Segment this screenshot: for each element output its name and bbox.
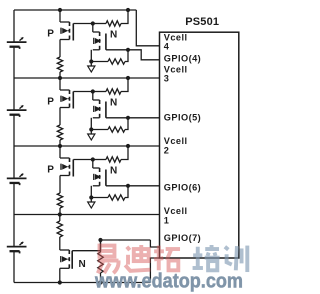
wire: rail to P-FET drain <box>59 78 61 90</box>
resistor R4C (bleed) <box>57 221 62 237</box>
transistor Q2A (P-channel MOSFET) <box>60 90 73 109</box>
node: P gate node <box>91 89 95 93</box>
wire: bleed resistor to next rail <box>59 72 61 78</box>
wire: bleed resistor to next rail <box>59 140 61 146</box>
svg-text:P: P <box>47 97 54 108</box>
node: rail junction to P-FET Q1A drain <box>58 8 62 12</box>
resistor R1C (bleed) <box>57 57 62 72</box>
wire: N gate lead to GPIO(5) <box>106 117 160 119</box>
wire: Q4 gate lead <box>72 250 100 252</box>
node: GPIO(6) junction <box>126 184 130 188</box>
node: N source node <box>89 127 93 131</box>
resistor R4B (gate-source) <box>100 240 102 252</box>
svg-text:GPIO(5): GPIO(5) <box>164 113 201 123</box>
wire: GPIO(7) jog into chip <box>150 240 159 247</box>
node: source junction on bottom rail <box>58 280 62 284</box>
wire: gate node to N-FET Q2B drain <box>92 92 94 101</box>
wire: N gate lead to GPIO(4) <box>106 49 128 51</box>
wire: rail to P-FET drain <box>59 146 61 158</box>
node: P gate node <box>91 21 95 25</box>
svg-text:GPIO(7): GPIO(7) <box>164 233 201 243</box>
ground (local reference) stage 1 <box>88 62 95 73</box>
resistor R3B (N gate-source) <box>91 197 108 199</box>
resistor R1B (N gate-source) <box>91 61 108 63</box>
svg-text:N: N <box>79 259 86 270</box>
wire: P-FET source to bleed resistor <box>59 176 61 194</box>
svg-text:2: 2 <box>164 146 170 156</box>
transistor Q3B (N-channel MOSFET) <box>93 168 106 186</box>
transistor Q3A (P-channel MOSFET) <box>60 158 73 177</box>
wire: bleed resistor to next rail <box>59 208 61 215</box>
wire: P-FET gate lead <box>73 23 93 25</box>
wire: R2A to rail riser <box>121 78 128 92</box>
wire: rail to P-FET drain <box>59 10 61 22</box>
transistor Q4 (N-channel MOSFET) <box>60 250 72 269</box>
wire: gate node to N-FET Q3B drain <box>92 160 94 169</box>
node: rail junction to gate resistor R2A <box>126 76 130 80</box>
watermark: red CJK characters 易迪拓 (drawn strokes) <box>98 245 180 273</box>
svg-text:N: N <box>110 98 117 109</box>
resistor R2C (bleed) <box>57 125 62 140</box>
node: rail junction to bleed resistor R4C <box>58 212 62 216</box>
wire: R1A to rail riser <box>121 10 128 24</box>
wire: Vcell 4 rail jog into chip <box>136 10 159 46</box>
transistor Q2B (N-channel MOSFET) <box>93 100 106 118</box>
svg-text:1: 1 <box>164 216 170 226</box>
svg-text:GPIO(4): GPIO(4) <box>164 54 201 64</box>
wire: bleed resistor to Q4 drain <box>59 237 61 250</box>
watermark: blue CJK characters 培训 (drawn strokes) <box>193 245 248 272</box>
battery stack wire <box>13 10 15 42</box>
node: rail junction to P-FET Q2A drain <box>58 76 62 80</box>
node: rail junction to P-FET Q3A drain <box>58 144 62 148</box>
node: P gate node <box>91 157 95 161</box>
wire: P-FET source to bleed resistor <box>59 40 61 58</box>
svg-text:3: 3 <box>164 74 170 84</box>
svg-text:GPIO(6): GPIO(6) <box>164 183 201 193</box>
wire: GPIO(4) jog into chip <box>128 50 160 60</box>
battery B3 (cell 2) <box>7 174 27 186</box>
wire: P-FET source to bleed resistor <box>59 108 61 126</box>
svg-text:www.edatop.com: www.edatop.com <box>94 269 243 292</box>
wire: rail to bleed resistor <box>59 215 61 222</box>
wire: N-FET source down <box>90 186 92 198</box>
ground (local reference) stage 3 <box>88 198 95 209</box>
svg-text:N: N <box>110 30 117 41</box>
wire: Vcell 4 rail <box>14 9 136 11</box>
node: GPIO(7) junction <box>98 238 102 242</box>
svg-text:P: P <box>47 165 54 176</box>
wire: R3A to rail riser <box>121 146 128 160</box>
wire: R1B riser to gate row <box>125 50 128 62</box>
wire: gate node to N-FET Q1B drain <box>92 24 94 33</box>
node: GPIO(5) junction <box>126 116 130 120</box>
wire: GPIO(7) row <box>101 239 151 241</box>
node: rail junction to gate resistor R1A <box>126 8 130 12</box>
svg-text:PS501: PS501 <box>185 16 219 28</box>
wire: Vcell 2 rail <box>14 145 160 147</box>
resistor R3C (bleed) <box>57 193 62 208</box>
op-amp/IC U1 PS501 body <box>160 32 239 258</box>
svg-text:Vcell: Vcell <box>164 206 188 216</box>
wire: R2B riser to gate row <box>125 118 128 130</box>
node: N source node <box>89 59 93 63</box>
wire: R3B riser to gate row <box>125 186 128 198</box>
node: GPIO(4) junction <box>126 48 130 52</box>
wire: N-FET source down <box>90 50 92 62</box>
wire: P-FET gate lead <box>73 91 93 93</box>
wire: bottom rail (BAT-) <box>14 282 150 284</box>
resistor R2A (P gate-source) <box>93 91 106 93</box>
resistor R2B (N gate-source) <box>91 129 108 131</box>
battery B2 (cell 3) <box>7 105 27 117</box>
resistor R3A (P gate-source) <box>93 159 106 161</box>
wire: gate riser to GPIO(7) row <box>100 240 102 251</box>
wire: Vcell 1 rail <box>14 214 160 216</box>
wire: Q4 source to bottom rail <box>59 268 61 282</box>
svg-text:N: N <box>110 166 117 177</box>
wire: N gate lead to GPIO(6) <box>106 185 160 187</box>
svg-text:4: 4 <box>164 42 170 52</box>
battery B4 (cell 1) <box>7 242 27 254</box>
wire: N-FET source down <box>90 118 92 130</box>
resistor R1A (P gate-source) <box>93 23 106 25</box>
ground (local reference) stage 2 <box>88 130 95 141</box>
battery B1 (cell 4) <box>7 37 27 49</box>
node: R4B junction on bottom rail <box>98 280 102 284</box>
wire: P-FET gate lead <box>73 159 93 161</box>
node: N source node <box>89 195 93 199</box>
transistor Q1B (N-channel MOSFET) <box>93 32 106 50</box>
transistor Q1A (P-channel MOSFET) <box>60 22 73 41</box>
wire: Vcell 3 rail <box>14 77 160 79</box>
svg-text:P: P <box>47 29 54 40</box>
node: rail junction to gate resistor R3A <box>126 144 130 148</box>
wire: bottom rail riser to chip VSS corner <box>150 258 159 283</box>
